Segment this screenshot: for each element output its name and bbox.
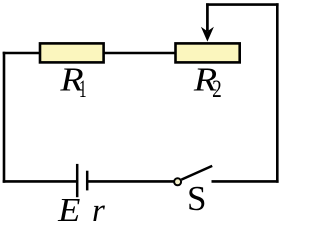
wire: top horizontal from wiper to top-right corner (206, 3, 279, 6)
svg-text:r: r (92, 193, 105, 224)
svg-text:S: S (187, 179, 206, 218)
svg-text:2: 2 (212, 75, 222, 103)
rheostat R2 wiper arrow shaft (206, 3, 209, 31)
battery E long plate (positive terminal) (76, 164, 79, 197)
battery short plate (negative terminal) (86, 171, 89, 191)
wire: top-left horizontal from corner to R1 left terminal (3, 52, 41, 55)
wire: between R1 and R2 (104, 52, 176, 55)
wire: battery negative plate to switch pivot (87, 180, 173, 183)
wire: left vertical side (3, 52, 6, 183)
wire: bottom-right horizontal from corner to switch right contact (212, 180, 279, 183)
wire: right vertical side (276, 3, 279, 182)
resistor R1 body (40, 43, 104, 62)
switch S pivot circle (174, 178, 181, 185)
svg-text:1: 1 (79, 75, 87, 103)
svg-text:E: E (57, 191, 80, 224)
wire: bottom-left horizontal from corner to battery positive plate (3, 180, 77, 183)
rheostat R2 body (176, 43, 240, 62)
rheostat R2 wiper arrowhead (201, 27, 214, 42)
switch S lever blade (open position) (181, 166, 212, 180)
